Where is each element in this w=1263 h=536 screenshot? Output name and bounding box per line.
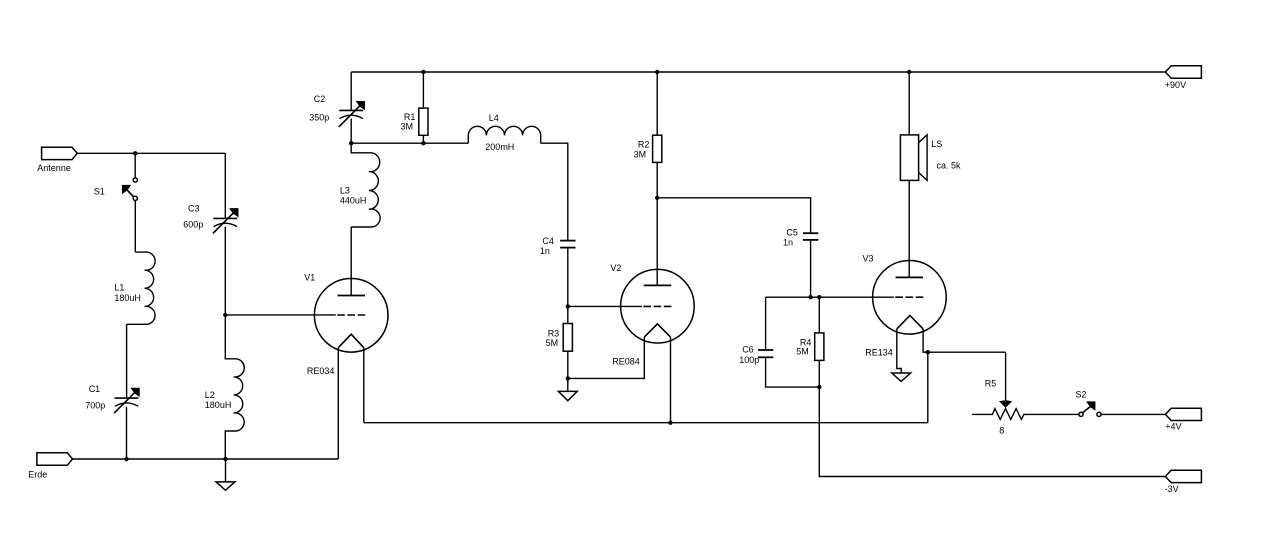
wire S2 to +4V terminal [1101, 413, 1165, 415]
wire C1 to Erde bus [126, 407, 128, 459]
node L2/Erde junction [223, 457, 227, 461]
inductor L1 [114, 252, 155, 324]
svg-text:RE034: RE034 [307, 366, 335, 376]
wire junction to -3V terminal [819, 387, 1165, 476]
svg-text:350p: 350p [309, 113, 329, 123]
node R2 top junction [655, 70, 659, 74]
wire V1 right cathode leg to cathode bus [363, 348, 365, 423]
svg-text:R1: R1 [404, 112, 416, 122]
svg-text:ca. 5k: ca. 5k [937, 161, 962, 171]
wire V3 grid bus [766, 296, 894, 298]
wire junction to cathode bus [927, 352, 929, 423]
triode V1 RE034 [304, 272, 388, 376]
svg-text:V2: V2 [610, 263, 621, 273]
svg-text:8: 8 [999, 426, 1004, 436]
wire junction to S1 top contact [134, 153, 136, 178]
capacitor C4 1n [540, 236, 576, 256]
terminal +4V [1165, 408, 1201, 431]
svg-text:RE084: RE084 [612, 356, 640, 366]
wire bus to R2 [656, 72, 658, 135]
resistor R3 5M [546, 324, 573, 352]
inductor L3 [340, 143, 380, 227]
wire cathode bus [364, 422, 928, 424]
svg-text:700p: 700p [85, 400, 105, 410]
svg-text:S1: S1 [94, 186, 105, 196]
capacitor C5 1n [783, 228, 818, 248]
svg-text:180uH: 180uH [114, 293, 141, 303]
svg-text:Antenne: Antenne [37, 163, 71, 173]
node LS top junction [907, 70, 911, 74]
wire junction to V1 grid [225, 314, 335, 316]
svg-text:+90V: +90V [1165, 80, 1186, 90]
wire V1 left cathode leg to Erde bus [337, 348, 339, 459]
wire R3 to ground junction [567, 351, 569, 378]
node V2 cathode/bus junction [668, 421, 672, 425]
svg-text:RE134: RE134 [865, 348, 893, 358]
svg-text:V3: V3 [863, 254, 874, 264]
inductor L4 200mH [468, 113, 540, 152]
svg-text:5M: 5M [796, 347, 809, 357]
capacitor C3 (variable 600p) [183, 204, 238, 234]
node C3/L2/grid junction [223, 313, 227, 317]
wire C4 to V2 grid junction [567, 248, 569, 307]
wire C6 to R4 bottom junction [766, 357, 820, 387]
wire bus to LS [908, 72, 910, 135]
ground below Erde bus [216, 459, 235, 490]
svg-text:L4: L4 [489, 113, 499, 123]
resistor R4 5M [796, 333, 824, 361]
wire junction to R3 [567, 306, 569, 323]
svg-text:5M: 5M [546, 338, 559, 348]
wire L3 to V1 anode [350, 227, 352, 296]
node R2/anode/C5 junction [655, 196, 659, 200]
wire Erde bus [73, 458, 339, 460]
inductor L2 [205, 315, 244, 459]
triode V2 RE084 [610, 263, 694, 366]
svg-text:C3: C3 [188, 204, 200, 214]
wire R4 top [818, 297, 820, 333]
svg-text:C1: C1 [89, 384, 101, 394]
wire top bus +90V [351, 71, 1165, 73]
wire to R5 wiper [1005, 352, 1007, 401]
node antenna/S1 junction [133, 151, 137, 155]
wire S1 to L1 [134, 201, 136, 253]
svg-text:R2: R2 [638, 139, 650, 149]
wire V3 right cathode leg [923, 329, 1006, 352]
wire LS to V3 anode [908, 180, 910, 277]
svg-text:100p: 100p [739, 355, 759, 365]
triode V3 RE134 [863, 254, 947, 358]
node R1 top junction [421, 70, 425, 74]
resistor R1 3M [401, 108, 429, 135]
wire C5 to grid wire [810, 240, 812, 297]
svg-text:C2: C2 [314, 94, 326, 104]
wire V3 left cathode leg to ground [897, 329, 901, 373]
wire mid bus C2-R1-L4 [351, 142, 468, 144]
svg-text:C6: C6 [742, 345, 754, 355]
svg-text:600p: 600p [183, 219, 203, 229]
node R1 bottom junction [421, 141, 425, 145]
node C5 junction [808, 295, 812, 299]
svg-text:L2: L2 [205, 390, 215, 400]
svg-text:C5: C5 [786, 228, 798, 238]
capacitor C6 100p [739, 345, 773, 366]
node C4/R3/grid junction [566, 304, 570, 308]
wire junction to C5 [657, 198, 810, 233]
wire junction to V2 anode [656, 198, 658, 286]
node V3 cathode junction [926, 350, 930, 354]
terminal Antenne [37, 147, 77, 173]
svg-text:3M: 3M [401, 122, 414, 132]
wire C6 branch [765, 297, 767, 350]
node R3/cathode junction [566, 376, 570, 380]
terminal Erde [28, 453, 72, 480]
terminal -3V [1165, 470, 1202, 494]
switch S1 [94, 178, 138, 201]
svg-text:R3: R3 [548, 328, 560, 338]
wire C3 to grid junction [224, 227, 226, 315]
terminal +90V [1165, 66, 1202, 90]
svg-text:1n: 1n [540, 246, 550, 256]
svg-text:L3: L3 [340, 185, 350, 195]
wire junction to V2 grid [568, 305, 642, 307]
resistor R2 3M [634, 135, 662, 162]
wire R4 bottom [818, 360, 820, 387]
wire C3 branch down [224, 153, 226, 218]
switch S2 [1076, 389, 1102, 416]
node C1/Erde junction [124, 457, 128, 461]
svg-text:C4: C4 [542, 236, 554, 246]
svg-text:LS: LS [931, 139, 942, 149]
wire C2 to L3 junction [350, 119, 352, 144]
svg-text:Erde: Erde [28, 470, 47, 480]
potentiometer R5 [972, 379, 1079, 436]
svg-text:440uH: 440uH [340, 196, 367, 206]
wire R3 junction to V2 cathode [568, 337, 645, 378]
svg-text:V1: V1 [304, 272, 315, 282]
wire R2 to anode junction [656, 162, 658, 197]
speaker LS ca. 5k [900, 135, 961, 181]
ground below R3 [558, 378, 577, 400]
node C2/L3 junction [349, 141, 353, 145]
capacitor C1 (variable 700p) [85, 384, 140, 413]
wire C2 branch [350, 72, 352, 110]
wire L4 to C4 [541, 143, 568, 240]
svg-text:3M: 3M [634, 149, 647, 159]
svg-text:180uH: 180uH [205, 400, 232, 410]
node R4 top junction [817, 295, 821, 299]
wire V2 right cathode leg [670, 337, 672, 423]
wire R1 to mid bus [422, 135, 424, 143]
capacitor C2 (variable 350p) [309, 94, 365, 127]
svg-text:+4V: +4V [1165, 422, 1181, 432]
node R4/C6/-3V junction [817, 385, 821, 389]
svg-text:200mH: 200mH [485, 142, 514, 152]
svg-text:S2: S2 [1076, 389, 1087, 399]
wire L1 to C1 [126, 324, 128, 398]
svg-text:R5: R5 [985, 379, 997, 389]
svg-text:-3V: -3V [1165, 484, 1179, 494]
svg-text:1n: 1n [783, 237, 793, 247]
svg-text:L1: L1 [114, 283, 124, 293]
wire bus to R1 [422, 72, 424, 108]
ground below V3 cathode [892, 373, 911, 381]
wire antenna to C3 branch [77, 152, 225, 154]
